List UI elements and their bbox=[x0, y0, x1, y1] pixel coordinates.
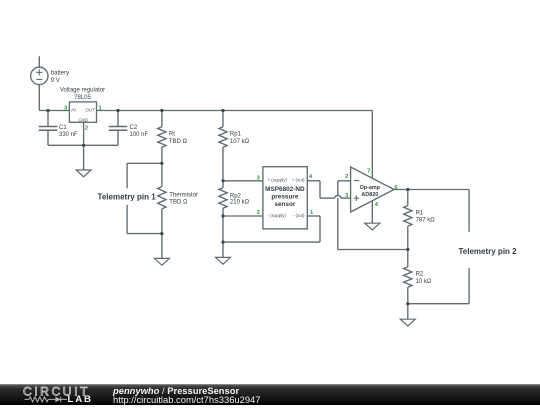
svg-text:Op-amp: Op-amp bbox=[360, 185, 381, 191]
svg-text:Voltage regulator: Voltage regulator bbox=[60, 88, 105, 94]
svg-text:R1: R1 bbox=[416, 210, 424, 216]
svg-text:4: 4 bbox=[309, 174, 313, 180]
svg-text:10 kΩ: 10 kΩ bbox=[416, 279, 432, 285]
svg-text:107 kΩ: 107 kΩ bbox=[230, 139, 250, 145]
svg-text:C1: C1 bbox=[59, 125, 67, 131]
svg-text:sensor: sensor bbox=[274, 201, 295, 208]
svg-text:9 V: 9 V bbox=[51, 78, 60, 84]
svg-text:7: 7 bbox=[367, 169, 370, 175]
svg-text:1: 1 bbox=[310, 210, 314, 216]
svg-text:330 nF: 330 nF bbox=[59, 132, 78, 138]
svg-text:LAB: LAB bbox=[67, 395, 92, 405]
svg-text:2: 2 bbox=[257, 210, 260, 216]
svg-text:Rt: Rt bbox=[169, 132, 175, 138]
svg-text:- (supply): - (supply) bbox=[268, 213, 287, 218]
svg-text:Telemetry pin 2: Telemetry pin 2 bbox=[459, 247, 518, 256]
svg-text:2: 2 bbox=[85, 126, 88, 132]
svg-text:Telemetry pin 1: Telemetry pin 1 bbox=[98, 192, 157, 201]
svg-text:100 nF: 100 nF bbox=[130, 132, 149, 138]
svg-text:battery: battery bbox=[51, 71, 69, 77]
svg-text:C2: C2 bbox=[130, 125, 138, 131]
svg-text:OUT: OUT bbox=[86, 108, 96, 113]
svg-text:R2: R2 bbox=[416, 272, 424, 278]
svg-text:- (out): - (out) bbox=[293, 213, 305, 218]
svg-text:Thermistor: Thermistor bbox=[169, 192, 198, 198]
svg-text:78L05: 78L05 bbox=[74, 95, 91, 101]
svg-text:Rp1: Rp1 bbox=[230, 132, 242, 138]
svg-text:TBD Ω: TBD Ω bbox=[169, 200, 188, 206]
svg-text:GND: GND bbox=[78, 117, 89, 122]
svg-text:787 kΩ: 787 kΩ bbox=[416, 218, 436, 224]
svg-text:210 kΩ: 210 kΩ bbox=[230, 200, 250, 206]
svg-text:+ (out): + (out) bbox=[292, 178, 305, 183]
svg-text:4: 4 bbox=[375, 202, 379, 208]
svg-text:TBD Ω: TBD Ω bbox=[169, 139, 188, 145]
svg-text:AD820: AD820 bbox=[361, 192, 378, 198]
svg-text:2: 2 bbox=[345, 174, 348, 180]
svg-text:Rp2: Rp2 bbox=[230, 193, 242, 199]
svg-text:+ (supply): + (supply) bbox=[268, 178, 288, 183]
svg-text:MSP6802-ND: MSP6802-ND bbox=[265, 186, 305, 193]
svg-text:pressure: pressure bbox=[271, 194, 298, 201]
